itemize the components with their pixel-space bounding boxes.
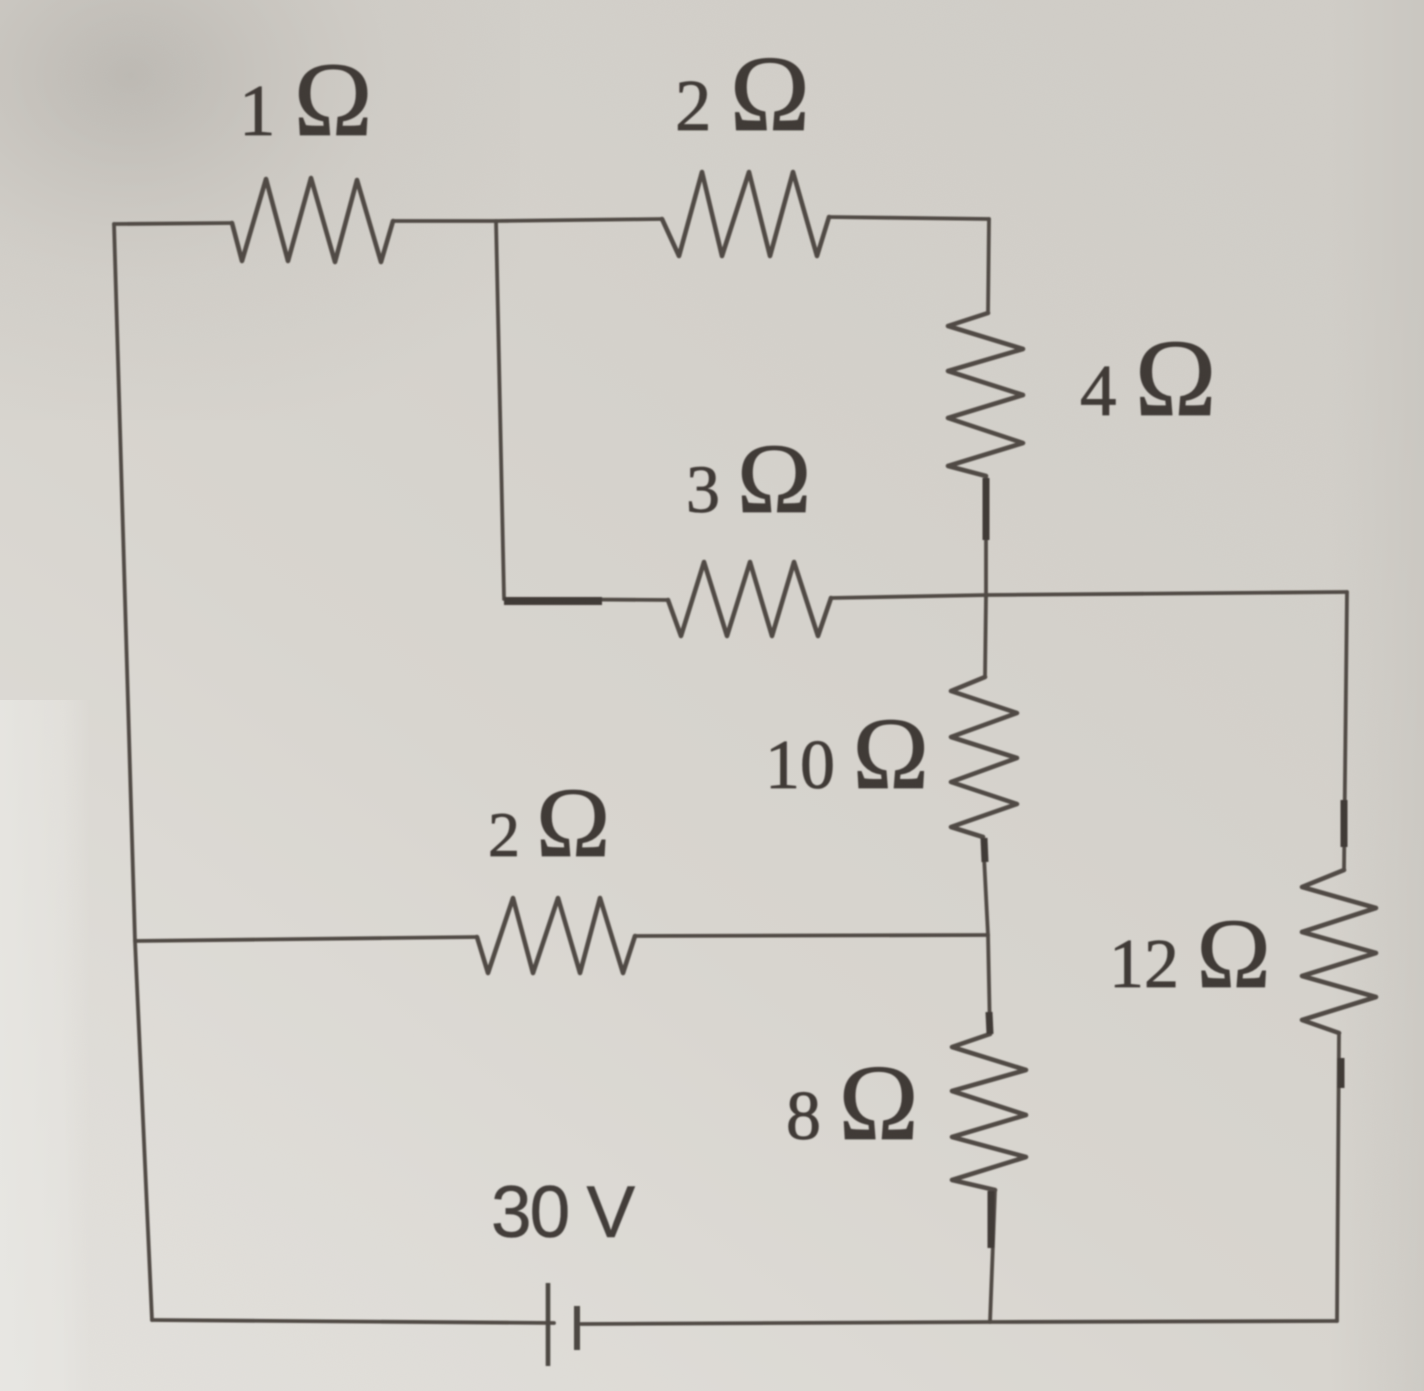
wire 12-ohm to bottom right corner [1337,1033,1339,1321]
wire 3-ohm row right [831,592,1347,598]
thick lead below 4-ohm [983,478,990,540]
resistor R 1-ohm [232,178,393,262]
resistor R 4-ohm vertical [948,313,1023,476]
resistor R 2-ohm top [662,172,829,256]
resistor R 3-ohm [668,562,831,636]
wire right vertical upper (corner down to 4-ohm) [988,219,989,313]
thick lead marks [504,478,1344,1248]
wire left vertical [114,224,152,1320]
wire top middle (1-ohm to 2-ohm through node) [393,219,662,221]
wire top-left horizontal (TL corner to 1-ohm resistor) [114,223,232,224]
wire 4-ohm to 3-ohm row junction [984,476,988,597]
thick lead above 8-ohm [989,1012,990,1034]
wire 2-ohm row left [135,937,477,941]
resistor R 12-ohm vertical [1302,870,1376,1033]
battery short plate [574,1306,580,1350]
wire bottom right (battery to corner) [581,1321,1337,1324]
thick lead above 12-ohm [1341,800,1348,847]
wire 8-ohm to bottom [990,1190,995,1322]
wire middle vertical (3-ohm row to 10-ohm) [985,597,986,677]
resistor R 2-ohm middle [477,898,635,973]
resistor R 10-ohm vertical [951,677,1017,837]
wire bottom left (corner to battery) [152,1320,554,1323]
resistor R 8-ohm vertical [952,1034,1026,1190]
wire 2-ohm row right [635,935,988,936]
thick lead below 12-ohm [1338,1058,1345,1088]
wire top right to corner [829,217,989,219]
thick lead below 10-ohm [984,838,985,862]
wire middle vertical (2-ohm row to 8-ohm) [988,935,990,1034]
wire mid-left vertical (top node down) [496,221,504,597]
wire 10-ohm to 2-ohm row junction [983,837,988,935]
battery 30 V [548,1283,577,1366]
battery long plate [546,1283,551,1366]
thick lead 3-ohm left [504,597,602,605]
wire 3-ohm row left lead [504,599,668,600]
wire right vertical (3-ohm row corner down to 12-ohm) [1344,592,1347,870]
thick lead below 8-ohm [988,1191,995,1248]
